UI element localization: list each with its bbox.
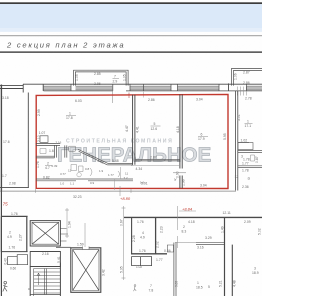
tiny person glyph bottom mid — [134, 285, 137, 292]
dim extension line below balcony — [112, 86, 114, 103]
lr room bottom wall — [131, 253, 167, 255]
small rooms boxes — [132, 257, 152, 266]
right unit toilet icon — [251, 155, 255, 161]
left unit top wall double lines — [0, 85, 23, 88]
window W5 right — [247, 84, 263, 91]
elevator2 door opening — [83, 247, 90, 249]
room2 underline — [45, 165, 52, 167]
top wall opening jamb left — [22, 84, 24, 92]
corridor dim vline x123.5 — [122, 206, 126, 280]
interior wall V2 upper — [180, 94, 182, 168]
corridor wall H1 right stub — [131, 165, 180, 167]
balcony 2 walls — [232, 68, 262, 85]
window W4 — [178, 84, 220, 91]
person icon bottom left — [3, 281, 8, 291]
bath clutter texts — [52, 164, 129, 180]
wall V2 door sill — [173, 172, 186, 174]
left unit outer wall — [0, 85, 2, 191]
stair center line — [44, 269, 46, 295]
right unit wall V — [236, 91, 238, 191]
left outer wall lower — [0, 191, 2, 296]
window W3 — [130, 84, 171, 91]
lr wall V x174.8 — [174, 243, 176, 296]
title rule lower — [0, 51, 262, 53]
stair treads — [34, 269, 60, 296]
corridor south wall H5 — [36, 179, 133, 181]
window W2 — [76, 84, 113, 91]
corridor dim vline x67 — [65, 208, 69, 238]
left lower room bottom wall — [1, 251, 27, 253]
elevator shaft 1 — [30, 221, 68, 246]
interior wall V2 lower — [180, 176, 182, 189]
corridor wall H1 — [135, 159, 180, 161]
right unit shaft wall — [238, 142, 249, 144]
red dim tick x143 — [142, 92, 144, 98]
dim ticks right wall — [238, 87, 247, 96]
main south wall — [124, 216, 262, 218]
balcony 1 walls — [74, 70, 129, 85]
lr room left wall top — [131, 218, 133, 254]
room5 underline — [151, 125, 161, 127]
dim cross — [175, 236, 196, 248]
apartment top wall inner line — [44, 90, 263, 92]
left lower room right wall — [1, 216, 26, 252]
header top dark rule — [0, 2, 262, 4]
small fixtures in bath — [40, 149, 77, 171]
interior wall V1 — [133, 95, 135, 165]
left unit bottom wall — [0, 187, 29, 189]
level line +8.84 — [179, 210, 196, 212]
corridor dim line — [0, 190, 236, 192]
bath wall V3 — [55, 145, 57, 157]
top wall jamb at x228 — [228, 83, 230, 90]
right unit shaft box — [238, 143, 253, 150]
small box right — [69, 146, 76, 151]
scan noise overlay — [0, 0, 1, 1]
right unit bath south wall — [238, 166, 262, 168]
lr room divider V — [155, 218, 157, 255]
rr wall H y243.5 — [196, 243, 225, 245]
hall dim line — [115, 167, 121, 190]
left lower room top wall — [1, 215, 27, 217]
rr wall V x224.5 — [224, 218, 226, 296]
svg-text:2 секция план 2 этажа: 2 секция план 2 этажа — [6, 41, 125, 50]
balcony door opening — [114, 90, 143, 92]
wc fixture — [77, 166, 83, 177]
elevator shaft 2 — [71, 248, 101, 292]
vent boxes — [8, 255, 28, 265]
apartment top wall outer line — [23, 83, 262, 85]
bath small box — [40, 136, 48, 143]
window W1 — [44, 84, 72, 91]
extra V wall x66 — [65, 145, 67, 157]
vline above elevator2 — [84, 223, 86, 247]
door arcs hallway — [90, 168, 120, 177]
header blue band — [0, 4, 262, 32]
title rule upper — [0, 35, 262, 36]
red apartment outline — [36, 94, 228, 188]
stair bottom wall — [30, 294, 60, 296]
room6 underline — [198, 135, 208, 137]
room1 underline — [66, 115, 76, 117]
door sill box — [167, 245, 173, 252]
stairwell walls — [30, 263, 60, 296]
bath wall H3 — [36, 143, 60, 145]
connecting wall — [56, 246, 71, 248]
corridor dim ticks — [35, 186, 131, 196]
diagonal wall — [78, 149, 108, 165]
rr wall V x232.5 — [231, 245, 233, 296]
balcony7 underline — [113, 78, 120, 80]
stair arrow — [37, 273, 40, 285]
dim line +8.84 vertical — [176, 206, 178, 230]
wc partition H4 — [36, 156, 55, 158]
lobby box 2.16 — [30, 252, 60, 267]
red dim tick x129 — [128, 93, 130, 99]
left unit right wall — [27, 93, 29, 189]
top wall opening jamb right — [42, 84, 44, 91]
right unit bath north wall — [238, 151, 262, 153]
right room1 underline — [245, 123, 253, 125]
hall wall H2 — [107, 163, 132, 165]
